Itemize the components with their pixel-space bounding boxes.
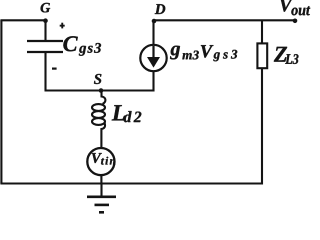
label gs3 of Vgs3: 'gs3' — [213, 50, 237, 61]
label node D: 'D' — [155, 4, 166, 14]
ground bar 3 — [99, 211, 104, 214]
label d2 of Ld2: 'd2' — [124, 111, 142, 122]
label V of Vout: 'V' — [280, 0, 293, 12]
wire node S horizontal — [45, 89, 155, 91]
label gs3 of Cgs3: 'gs3' — [79, 43, 101, 56]
inductor Ld2 coil — [102, 91, 106, 104]
node Vout terminal dot — [293, 19, 298, 24]
label g of gm3: 'g' — [170, 46, 180, 60]
label minus sign — [52, 68, 57, 70]
node S junction dot — [99, 88, 104, 93]
label V of Vtin: 'V' — [92, 153, 102, 163]
impedance ZL3 box — [257, 43, 267, 68]
wire capacitor top lead — [44, 20, 46, 40]
label plus sign — [60, 23, 65, 29]
ground stub — [100, 184, 102, 197]
wire left vertical — [0, 20, 2, 183]
label out of Vout: 'out' — [291, 6, 310, 15]
wire bottom bus — [0, 182, 262, 184]
ground bar 1 — [87, 196, 116, 199]
wire current-source top lead — [152, 20, 154, 45]
wire top-left horizontal — [0, 19, 45, 21]
wire capacitor bottom lead — [44, 53, 46, 91]
current source arrow — [147, 46, 160, 68]
capacitor Cgs3 bottom plate — [27, 51, 63, 53]
ground bar 2 — [95, 204, 110, 207]
current source gm3Vgs3 circle — [140, 45, 166, 71]
label L3 of ZL3: 'L3' — [285, 54, 298, 64]
node D junction dot — [152, 19, 157, 24]
wire below Vtin — [100, 175, 102, 184]
wire current-source bottom lead — [152, 71, 154, 91]
label tin of Vtin: 'tin' — [101, 157, 115, 165]
node G junction dot — [43, 18, 48, 23]
label V of Vgs3: 'V' — [201, 45, 214, 57]
voltage source Vtin circle — [87, 148, 114, 175]
label m3 of gm3: 'm3' — [182, 51, 198, 60]
label C of Cgs3: 'C' — [63, 36, 77, 51]
capacitor Cgs3 top plate — [27, 40, 63, 42]
label node G: 'G' — [41, 3, 51, 13]
label node S: 'S' — [94, 74, 101, 84]
wire ZL3 bottom lead — [261, 69, 263, 185]
label Z of ZL3: 'Z' — [274, 47, 287, 62]
wire top-right horizontal D to Vout — [154, 19, 296, 21]
label L of Ld2: 'L' — [112, 105, 125, 120]
wire ZL3 top lead — [261, 20, 263, 43]
